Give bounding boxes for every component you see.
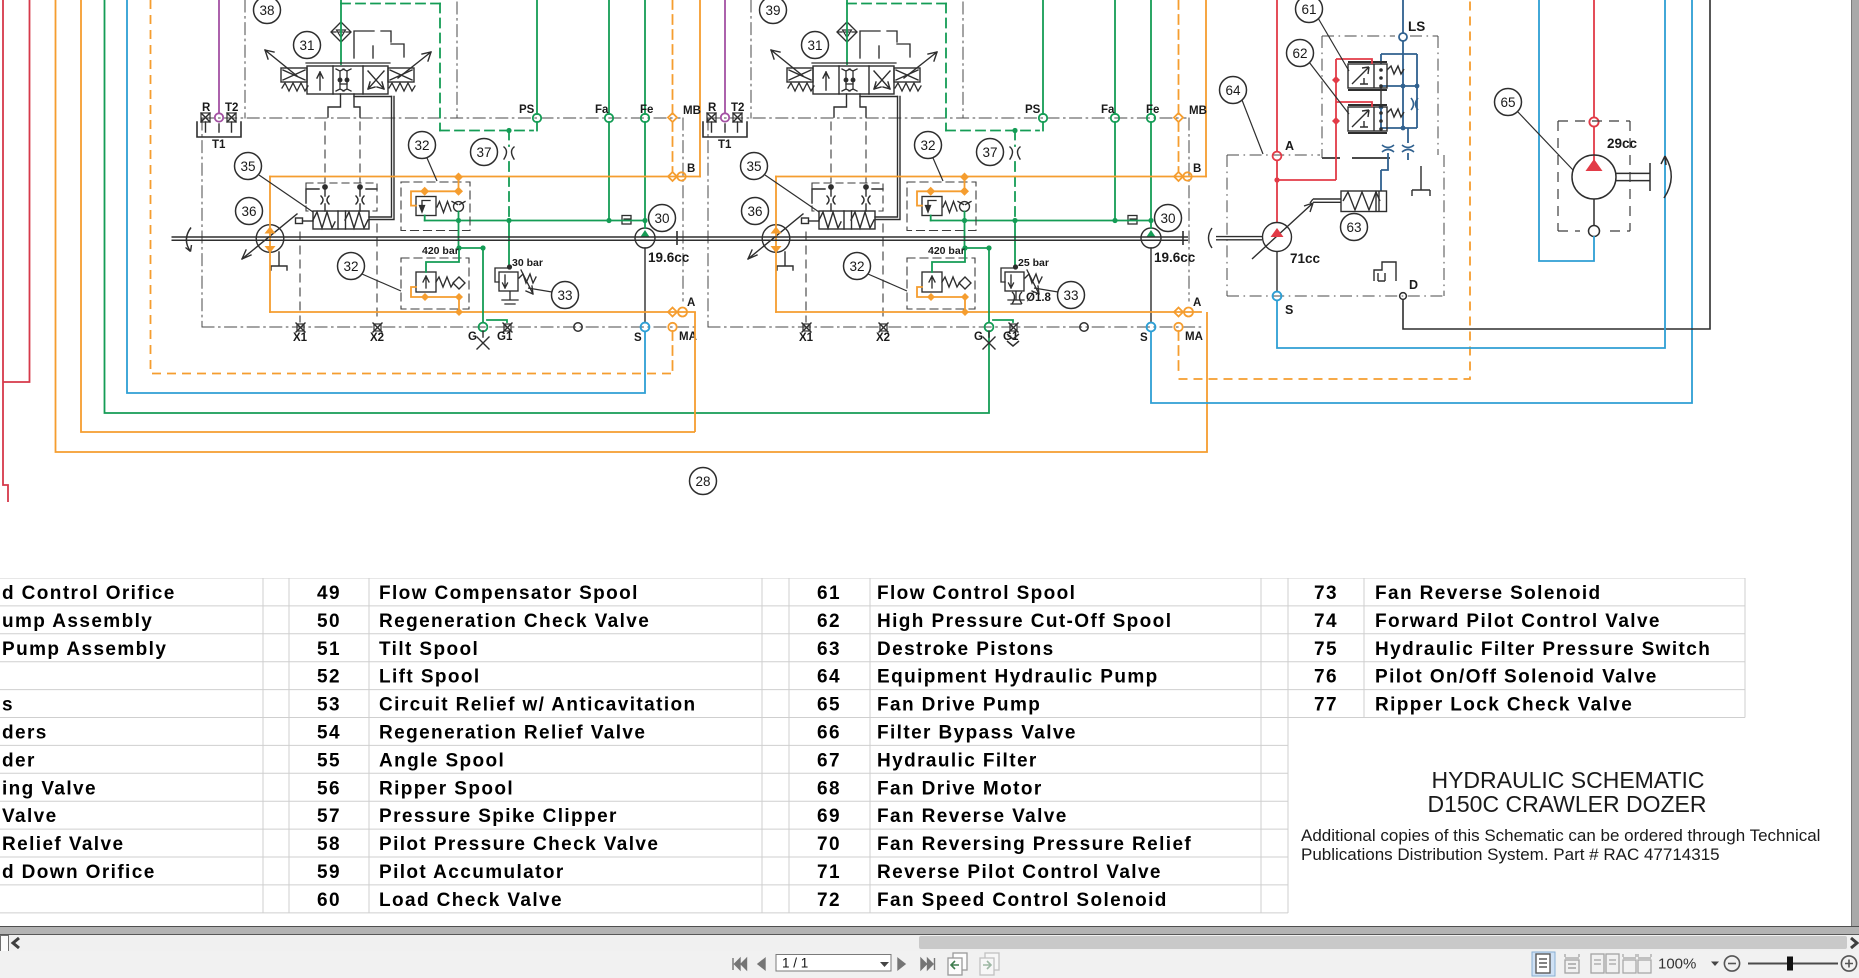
- circled number 32 upper right: [915, 132, 942, 159]
- svg-text:420 bar: 420 bar: [928, 245, 965, 257]
- svg-text:69: 69: [817, 806, 841, 827]
- circled number 36 left: [236, 198, 263, 225]
- svg-text:63: 63: [817, 639, 841, 660]
- drive shaft through pump sections: [172, 228, 1189, 252]
- svg-text:s: s: [2, 695, 14, 716]
- svg-text:Publications Distribution Syst: Publications Distribution System. Part #…: [1301, 845, 1720, 864]
- svg-text:57: 57: [317, 806, 341, 827]
- section 3 port labels: [1285, 19, 1425, 317]
- svg-text:52: 52: [317, 667, 341, 688]
- svg-text:56: 56: [317, 778, 341, 799]
- svg-text:65: 65: [1500, 95, 1515, 110]
- svg-text:d Control Orifice: d Control Orifice: [2, 583, 176, 604]
- svg-text:Lift Spool: Lift Spool: [379, 667, 481, 688]
- LS orifices: [1382, 98, 1418, 152]
- svg-text:Equipment Hydraulic Pump: Equipment Hydraulic Pump: [877, 667, 1159, 688]
- svg-text:Hydraulic Filter Pressure Swit: Hydraulic Filter Pressure Switch: [1375, 639, 1711, 660]
- circled number 35 right: [741, 153, 768, 180]
- green bus: [105, 0, 990, 413]
- svg-text:D150C CRAWLER DOZER: D150C CRAWLER DOZER: [1427, 791, 1706, 817]
- parts list table grid: [0, 578, 1745, 913]
- circled number 35 left: [235, 153, 262, 180]
- svg-text:Pilot Pressure Check Valve: Pilot Pressure Check Valve: [379, 834, 659, 855]
- svg-text:35: 35: [240, 159, 255, 174]
- svg-text:38: 38: [259, 3, 274, 18]
- svg-text:33: 33: [1063, 288, 1078, 303]
- svg-text:Fan Drive Motor: Fan Drive Motor: [877, 778, 1043, 799]
- destroke piston 63: [1310, 191, 1387, 212]
- svg-text:32: 32: [343, 259, 358, 274]
- svg-text:60: 60: [317, 890, 341, 911]
- LS port and line: [1381, 0, 1417, 191]
- circled number 37 left: [471, 139, 498, 166]
- pump 64 S suction port: [1273, 292, 1282, 301]
- left feeder red line 2: [3, 0, 30, 382]
- svg-text:LS: LS: [1408, 19, 1425, 34]
- orange bus outer: [56, 0, 1208, 452]
- svg-text:50: 50: [317, 611, 341, 632]
- svg-text:73: 73: [1314, 583, 1338, 604]
- svg-text:63: 63: [1346, 220, 1361, 235]
- next page button: [898, 959, 905, 970]
- svg-text:Fan Speed Control Solenoid: Fan Speed Control Solenoid: [877, 890, 1168, 911]
- circled number 32 upper left: [409, 132, 436, 159]
- bottom page edge: [0, 926, 1859, 928]
- svg-text:Pressure Spike Clipper: Pressure Spike Clipper: [379, 806, 618, 827]
- svg-text:61: 61: [1301, 2, 1316, 17]
- svg-text:59: 59: [317, 862, 341, 883]
- scrollbar left arrow: [10, 937, 24, 949]
- circled number 64: [1220, 77, 1247, 104]
- svg-text:75: 75: [1314, 639, 1338, 660]
- svg-text:Circuit Relief w/ Anticavitati: Circuit Relief w/ Anticavitation: [379, 695, 697, 716]
- svg-text:31: 31: [807, 38, 822, 53]
- svg-text:Tilt Spool: Tilt Spool: [379, 639, 479, 660]
- svg-text:32: 32: [920, 138, 935, 153]
- svg-text:d Down Orifice: d Down Orifice: [2, 862, 156, 883]
- title block: [1301, 767, 1820, 864]
- svg-text:420 bar: 420 bar: [422, 245, 459, 257]
- svg-text:Additional copies of this Sche: Additional copies of this Schematic can …: [1301, 826, 1820, 845]
- orange bus inner: [81, 0, 695, 432]
- svg-text:30: 30: [654, 211, 669, 226]
- svg-text:Fan Reverse Solenoid: Fan Reverse Solenoid: [1375, 583, 1602, 604]
- section2 G1 check chevrons: [1007, 334, 1019, 346]
- svg-text:61: 61: [817, 583, 841, 604]
- svg-text:ump Assembly: ump Assembly: [2, 611, 153, 632]
- svg-text:Fan Drive Pump: Fan Drive Pump: [877, 695, 1041, 716]
- fan pump red supply line: [1589, 0, 1598, 162]
- svg-text:71cc: 71cc: [1290, 251, 1321, 266]
- svg-text:der: der: [2, 750, 36, 771]
- horizontal scrollbar row: [0, 935, 1859, 951]
- prev page button: [758, 959, 765, 970]
- circled number 65: [1495, 89, 1522, 116]
- circled number 28: [690, 468, 717, 495]
- svg-text:Pump Assembly: Pump Assembly: [2, 639, 167, 660]
- svg-text:55: 55: [317, 750, 341, 771]
- circled number 30 right: [1155, 205, 1182, 232]
- svg-text:58: 58: [317, 834, 341, 855]
- circled number 37 right: [977, 139, 1004, 166]
- zoom out button: [1724, 956, 1739, 971]
- single page mode button active: [1532, 952, 1555, 976]
- fan pump blue return line: [1539, 0, 1594, 261]
- svg-text:Pilot On/Off Solenoid Valve: Pilot On/Off Solenoid Valve: [1375, 667, 1658, 688]
- svg-text:54: 54: [317, 723, 341, 744]
- svg-text:77: 77: [1314, 695, 1338, 716]
- orange dashed pilot bus: [151, 0, 673, 374]
- last page button: [921, 958, 935, 970]
- svg-text:72: 72: [817, 890, 841, 911]
- svg-text:Flow Control Spool: Flow Control Spool: [877, 583, 1076, 604]
- svg-text:32: 32: [414, 138, 429, 153]
- svg-text:49: 49: [317, 583, 341, 604]
- fan pump 65: [1572, 155, 1671, 237]
- blue suction line pump 64: [1277, 0, 1665, 348]
- svg-text:37: 37: [476, 145, 491, 160]
- svg-text:64: 64: [1225, 83, 1241, 98]
- previous view icon: [948, 953, 967, 975]
- svg-text:Angle Spool: Angle Spool: [379, 750, 505, 771]
- valve section 1: [197, 0, 701, 374]
- svg-text:62: 62: [1292, 46, 1307, 61]
- zoom slider: [1748, 963, 1838, 965]
- circled number 32 lower right: [844, 253, 871, 280]
- scrollbar thumb: [919, 936, 1847, 949]
- svg-text:Ripper Spool: Ripper Spool: [379, 778, 514, 799]
- solenoid valve 62: [1348, 105, 1404, 133]
- svg-text:28: 28: [695, 474, 710, 489]
- parts list table text: [2, 583, 1711, 911]
- red pressure line A: [1273, 0, 1282, 222]
- svg-text:53: 53: [317, 695, 341, 716]
- svg-text:66: 66: [817, 723, 841, 744]
- svg-text:64: 64: [817, 667, 841, 688]
- svg-text:31: 31: [299, 38, 314, 53]
- next view icon: [980, 953, 999, 975]
- zoom in button: [1841, 956, 1856, 971]
- pump 64 variable piston pump: [1209, 203, 1314, 292]
- svg-text:74: 74: [1314, 611, 1338, 632]
- svg-text:Flow Compensator Spool: Flow Compensator Spool: [379, 583, 639, 604]
- svg-text:68: 68: [817, 778, 841, 799]
- two page scroll mode button: [1623, 954, 1651, 973]
- svg-text:36: 36: [241, 204, 256, 219]
- circled number 61: [1296, 0, 1323, 23]
- svg-text:67: 67: [817, 750, 841, 771]
- svg-text:1 / 1: 1 / 1: [782, 956, 808, 971]
- svg-text:Regeneration Relief Valve: Regeneration Relief Valve: [379, 723, 646, 744]
- svg-text:100%: 100%: [1658, 956, 1696, 973]
- first page button: [733, 958, 747, 970]
- svg-text:ing Valve: ing Valve: [2, 778, 97, 799]
- LS vent tank symbol: [1412, 166, 1430, 196]
- svg-text:A: A: [1285, 139, 1294, 153]
- blue bus left: [127, 0, 645, 393]
- svg-text:Pilot Accumulator: Pilot Accumulator: [379, 862, 565, 883]
- svg-text:30: 30: [1160, 211, 1175, 226]
- vertical scrollbar: [1851, 0, 1859, 926]
- svg-text:Hydraulic Filter: Hydraulic Filter: [877, 750, 1038, 771]
- circled number 30 left: [649, 205, 676, 232]
- section1 work port A drop wire: [694, 312, 696, 432]
- svg-text:HYDRAULIC SCHEMATIC: HYDRAULIC SCHEMATIC: [1431, 767, 1704, 793]
- svg-text:76: 76: [1314, 667, 1338, 688]
- svg-text:Filter Bypass Valve: Filter Bypass Valve: [877, 723, 1077, 744]
- circled number 32 lower left: [338, 253, 365, 280]
- circled number 62: [1287, 40, 1314, 67]
- solenoid block dashed box: [1322, 36, 1438, 158]
- svg-text:Ripper Lock Check Valve: Ripper Lock Check Valve: [1375, 695, 1633, 716]
- gray strip below page: [0, 927, 1859, 934]
- D port and drain line: [1400, 293, 1407, 300]
- svg-text:Destroke Pistons: Destroke Pistons: [877, 639, 1055, 660]
- circled number 39: [760, 0, 787, 24]
- svg-text:71: 71: [817, 862, 841, 883]
- svg-text:37: 37: [982, 145, 997, 160]
- svg-text:Valve: Valve: [2, 806, 58, 827]
- circled number 33 right: [1058, 282, 1085, 309]
- svg-text:33: 33: [557, 288, 572, 303]
- svg-text:Fan Reverse Valve: Fan Reverse Valve: [877, 806, 1068, 827]
- svg-text:36: 36: [747, 204, 762, 219]
- circled number 33 left: [552, 282, 579, 309]
- svg-text:D: D: [1409, 278, 1418, 292]
- page number box: [776, 955, 891, 972]
- blue bus right (S2): [1151, 0, 1692, 403]
- svg-text:25 bar: 25 bar: [1018, 257, 1049, 269]
- leader lines for number circles: [259, 18, 1573, 292]
- svg-text:65: 65: [817, 695, 841, 716]
- svg-text:62: 62: [817, 611, 841, 632]
- svg-text:30 bar: 30 bar: [512, 257, 543, 269]
- valve section 2: [703, 0, 1207, 374]
- circled number 31 left: [294, 32, 321, 59]
- continuous scroll mode button: [1565, 954, 1579, 973]
- drain step symbol near D: [1374, 262, 1396, 281]
- svg-text:29cc: 29cc: [1607, 136, 1638, 151]
- svg-text:High Pressure Cut-Off Spool: High Pressure Cut-Off Spool: [877, 611, 1172, 632]
- left feeder red line 1: [3, 0, 8, 502]
- svg-text:S: S: [1285, 303, 1293, 317]
- svg-text:Relief Valve: Relief Valve: [2, 834, 124, 855]
- svg-text:39: 39: [765, 3, 780, 18]
- red pilot supply lines to solenoids: [1277, 59, 1372, 180]
- circled number 36 right: [742, 198, 769, 225]
- svg-text:70: 70: [817, 834, 841, 855]
- svg-text:Regeneration Check Valve: Regeneration Check Valve: [379, 611, 650, 632]
- two page mode button: [1591, 954, 1619, 973]
- solenoid valve 61: [1348, 62, 1404, 90]
- equipment pump 64 boundary dashed box: [1227, 155, 1444, 296]
- toolbar: [0, 951, 1859, 978]
- circled number 38: [254, 0, 281, 24]
- svg-text:Ø1.8: Ø1.8: [1026, 292, 1052, 304]
- svg-text:Reverse Pilot Control Valve: Reverse Pilot Control Valve: [877, 862, 1162, 883]
- svg-text:35: 35: [746, 159, 761, 174]
- circled number 63: [1341, 214, 1368, 241]
- svg-text:51: 51: [317, 639, 341, 660]
- scrollbar right arrow: [1846, 937, 1859, 949]
- svg-text:Forward Pilot Control Valve: Forward Pilot Control Valve: [1375, 611, 1661, 632]
- svg-text:32: 32: [849, 259, 864, 274]
- circled number 31 right: [802, 32, 829, 59]
- fan pump dashed bracket box: [1558, 121, 1630, 231]
- svg-text:ders: ders: [2, 723, 48, 744]
- svg-text:Fan Reversing Pressure Relief: Fan Reversing Pressure Relief: [877, 834, 1192, 855]
- svg-text:Load Check Valve: Load Check Valve: [379, 890, 563, 911]
